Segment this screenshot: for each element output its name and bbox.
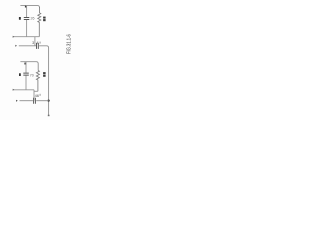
- svg-text:FIG.31.1-6: FIG.31.1-6: [66, 34, 72, 54]
- svg-text:26: 26: [31, 16, 35, 20]
- svg-text:70: 70: [30, 74, 34, 78]
- svg-text:3: 3: [32, 41, 34, 45]
- svg-text:6: 6: [37, 94, 39, 98]
